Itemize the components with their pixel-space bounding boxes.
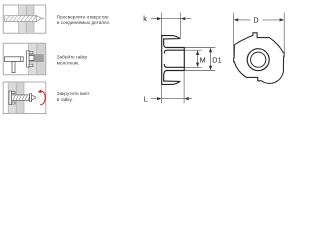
barrel outer bottom bbox=[167, 70, 185, 72]
barrel circle bbox=[247, 49, 269, 71]
icon 2 T-nut barrel entering hole bbox=[29, 56, 34, 61]
icon 3 screw head washer bbox=[30, 94, 32, 102]
icon 2 T-nut bottom prong bbox=[29, 64, 33, 66]
svg-text:k: k bbox=[143, 14, 147, 23]
svg-text:D1: D1 bbox=[212, 56, 221, 65]
icon 1 drill flutes (spiral hatch) bbox=[5, 16, 36, 22]
barrel end face bbox=[183, 48, 185, 71]
dimension L bbox=[151, 72, 192, 104]
dimension M bbox=[185, 50, 202, 67]
barrel inner top bbox=[164, 50, 184, 53]
icon 3 T-nut prongs bbox=[12, 92, 15, 94]
icon 3 red rotation arrow bbox=[40, 91, 45, 104]
top prong bbox=[162, 36, 180, 39]
icon 1 drill bit body bbox=[5, 16, 36, 22]
flange left face bbox=[161, 36, 163, 85]
icon 2 T-nut flange bbox=[27, 51, 30, 67]
icon 2 hammer head bbox=[5, 57, 24, 62]
icon 1 frame: drilling step bbox=[3, 5, 46, 33]
svg-text:в соединяемых деталях.: в соединяемых деталях. bbox=[57, 20, 110, 25]
thread hole circle bbox=[251, 52, 266, 67]
dimension D bbox=[234, 13, 285, 56]
icon 2 drilled hole bbox=[29, 54, 44, 62]
dimension D1 bbox=[185, 48, 215, 71]
icon 1 board edge lines bbox=[19, 5, 34, 32]
flange right face lower bbox=[164, 71, 167, 82]
icon 1 drill tip bbox=[36, 16, 41, 22]
svg-text:в гайку.: в гайку. bbox=[57, 96, 73, 102]
svg-text:L: L bbox=[144, 94, 148, 103]
icon 2 T-nut top prong bbox=[29, 51, 33, 53]
icon 1 board 1 (left panel cross-section) bbox=[19, 5, 27, 32]
flange outline with 4 prong tabs and punched slots bbox=[234, 33, 285, 84]
svg-text:Забейте гайку: Забейте гайку bbox=[57, 54, 88, 60]
icon 2 hammer handle bbox=[12, 62, 15, 73]
flange right face upper bbox=[164, 39, 167, 48]
icon 3 screw head cone bbox=[32, 95, 36, 100]
svg-text:M: M bbox=[200, 56, 206, 65]
bottom prong bbox=[162, 81, 180, 84]
barrel inner bottom bbox=[164, 65, 184, 68]
barrel outer top bbox=[167, 47, 185, 49]
icon 1 board 2 (right panel cross-section) bbox=[26, 5, 34, 32]
icon 3 T-nut flange (installed) bbox=[9, 91, 12, 105]
dimension k bbox=[151, 13, 191, 38]
icon 3 threaded screw shank bbox=[12, 95, 30, 100]
icon 2 panel (gray boards) bbox=[29, 44, 37, 75]
svg-text:D: D bbox=[253, 16, 258, 25]
icon 3 boards bbox=[8, 82, 16, 113]
svg-text:молотком.: молотком. bbox=[57, 61, 79, 66]
icon 2 frame: hammer the nut step bbox=[3, 43, 46, 75]
icon 3 frame: screw-in step bbox=[3, 82, 46, 114]
svg-text:Закрутите винт: Закрутите винт bbox=[57, 91, 91, 96]
